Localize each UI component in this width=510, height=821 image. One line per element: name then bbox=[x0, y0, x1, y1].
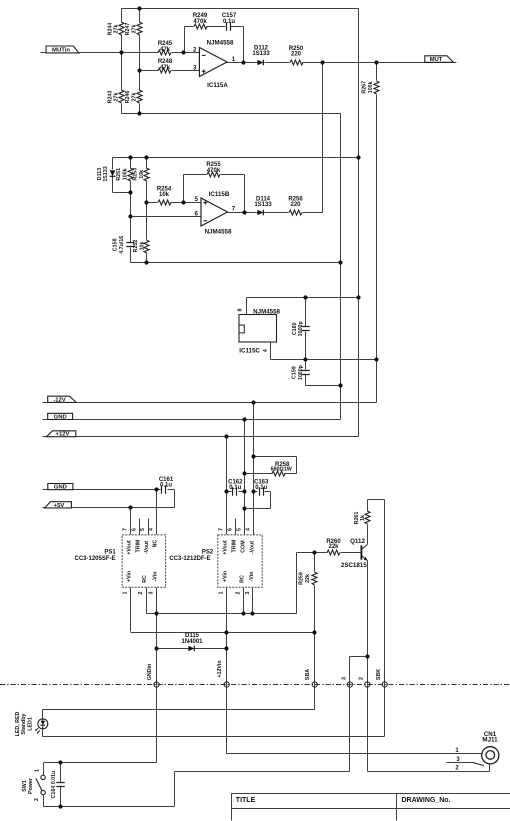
svg-text:47k: 47k bbox=[160, 47, 171, 53]
svg-text:LED, RED: LED, RED bbox=[15, 711, 21, 736]
svg-text:1: 1 bbox=[232, 56, 236, 63]
svg-text:6: 6 bbox=[195, 211, 199, 218]
svg-text:C164 0.01u: C164 0.01u bbox=[51, 771, 57, 799]
svg-text:2: 2 bbox=[359, 677, 365, 680]
svg-text:2: 2 bbox=[193, 46, 197, 53]
svg-text:LED1: LED1 bbox=[27, 717, 33, 731]
svg-text:7: 7 bbox=[232, 206, 236, 213]
svg-text:SBK: SBK bbox=[376, 669, 382, 680]
svg-text:470k: 470k bbox=[207, 168, 221, 174]
svg-text:10k: 10k bbox=[140, 242, 146, 251]
svg-text:MUTin: MUTin bbox=[52, 48, 70, 54]
svg-text:GNDin: GNDin bbox=[147, 664, 153, 680]
svg-text:1N4001: 1N4001 bbox=[181, 639, 203, 645]
svg-text:IC115B: IC115B bbox=[209, 191, 230, 198]
svg-text:100k: 100k bbox=[368, 81, 374, 93]
svg-text:220: 220 bbox=[291, 52, 302, 58]
svg-text:NJM4558: NJM4558 bbox=[205, 229, 232, 236]
svg-text:C160: C160 bbox=[292, 322, 298, 335]
svg-text:MUT: MUT bbox=[430, 57, 443, 63]
svg-text:0.1u: 0.1u bbox=[255, 485, 267, 491]
svg-text:2: 2 bbox=[236, 591, 242, 594]
svg-text:1: 1 bbox=[123, 591, 129, 594]
svg-text:1: 1 bbox=[35, 769, 41, 772]
svg-text:2: 2 bbox=[34, 798, 40, 801]
svg-text:27k: 27k bbox=[132, 93, 138, 102]
svg-text:CC3-1205SF-E: CC3-1205SF-E bbox=[74, 556, 115, 562]
svg-text:SBA: SBA bbox=[305, 669, 311, 680]
svg-text:4.7u/16: 4.7u/16 bbox=[119, 236, 125, 254]
svg-text:1k: 1k bbox=[360, 515, 366, 521]
svg-text:R251: R251 bbox=[116, 168, 122, 181]
svg-text:SW1: SW1 bbox=[22, 780, 28, 792]
svg-text:0.1u: 0.1u bbox=[223, 19, 235, 25]
svg-text:7: 7 bbox=[219, 528, 225, 531]
svg-text:NJM4558: NJM4558 bbox=[207, 39, 234, 46]
svg-text:1S133: 1S133 bbox=[254, 202, 272, 208]
svg-text:MJ11: MJ11 bbox=[482, 737, 498, 744]
svg-text:R247: R247 bbox=[125, 23, 131, 36]
svg-text:+12V: +12V bbox=[56, 432, 70, 438]
svg-text:CC3-1212DF-E: CC3-1212DF-E bbox=[169, 556, 210, 562]
svg-text:27k: 27k bbox=[132, 25, 138, 34]
svg-text:-Vin: -Vin bbox=[249, 572, 255, 582]
svg-text:+Vout: +Vout bbox=[223, 540, 229, 555]
svg-text:TRIM: TRIM bbox=[232, 539, 238, 553]
svg-text:2SC1815: 2SC1815 bbox=[341, 562, 367, 569]
svg-text:8: 8 bbox=[238, 308, 244, 311]
svg-text:IC115C: IC115C bbox=[239, 347, 260, 354]
svg-text:R261: R261 bbox=[354, 512, 360, 525]
svg-text:10k: 10k bbox=[159, 192, 170, 198]
svg-text:RC: RC bbox=[240, 575, 246, 583]
svg-text:22k: 22k bbox=[305, 574, 311, 583]
svg-text:1S133: 1S133 bbox=[103, 166, 109, 181]
svg-text:+12Vin: +12Vin bbox=[217, 660, 223, 677]
svg-text:5: 5 bbox=[236, 528, 242, 531]
svg-text:-12V: -12V bbox=[53, 397, 66, 403]
svg-text:R246: R246 bbox=[125, 91, 131, 104]
svg-text:+Vout: +Vout bbox=[127, 540, 133, 555]
svg-text:PS1: PS1 bbox=[104, 549, 116, 555]
svg-text:3: 3 bbox=[193, 64, 197, 71]
svg-text:Power: Power bbox=[28, 778, 34, 794]
svg-text:C159: C159 bbox=[291, 366, 297, 379]
svg-text:220: 220 bbox=[290, 202, 301, 208]
svg-text:GND: GND bbox=[54, 414, 67, 420]
svg-text:R267: R267 bbox=[361, 81, 367, 94]
svg-text:1000p: 1000p bbox=[298, 364, 304, 380]
svg-text:Standby: Standby bbox=[21, 714, 27, 735]
svg-text:100k: 100k bbox=[123, 168, 129, 180]
svg-text:6: 6 bbox=[131, 528, 137, 531]
svg-text:1: 1 bbox=[219, 591, 225, 594]
svg-text:COM: COM bbox=[240, 540, 246, 553]
svg-text:1000p: 1000p bbox=[298, 321, 304, 337]
svg-text:3: 3 bbox=[149, 591, 155, 594]
svg-text:6: 6 bbox=[228, 528, 234, 531]
svg-text:D115: D115 bbox=[185, 633, 200, 639]
svg-text:7: 7 bbox=[123, 528, 129, 531]
svg-text:R244: R244 bbox=[107, 23, 113, 36]
svg-text:C158: C158 bbox=[113, 238, 119, 251]
svg-text:NC: NC bbox=[153, 540, 159, 548]
svg-text:TITLE: TITLE bbox=[236, 797, 256, 804]
svg-text:10k: 10k bbox=[139, 170, 145, 179]
svg-text:470k: 470k bbox=[193, 19, 207, 25]
svg-text:Q112: Q112 bbox=[350, 538, 365, 545]
svg-text:R253: R253 bbox=[133, 168, 139, 181]
svg-text:0.1u: 0.1u bbox=[160, 483, 172, 489]
svg-text:4: 4 bbox=[149, 528, 155, 531]
svg-text:3: 3 bbox=[342, 677, 348, 680]
svg-text:4: 4 bbox=[263, 349, 269, 352]
svg-text:DRAWING_No.: DRAWING_No. bbox=[402, 797, 451, 804]
svg-text:27k: 27k bbox=[114, 25, 120, 34]
svg-text:R252: R252 bbox=[133, 240, 139, 253]
svg-text:5: 5 bbox=[195, 196, 199, 203]
svg-text:PS2: PS2 bbox=[202, 549, 214, 555]
svg-text:R259: R259 bbox=[298, 572, 304, 585]
svg-text:-Vin: -Vin bbox=[153, 572, 159, 582]
svg-text:GND: GND bbox=[54, 485, 67, 491]
svg-text:IC115A: IC115A bbox=[207, 82, 228, 89]
svg-text:5: 5 bbox=[140, 528, 146, 531]
svg-text:2: 2 bbox=[138, 591, 144, 594]
svg-text:RC: RC bbox=[142, 575, 148, 583]
svg-text:NJM4558: NJM4558 bbox=[253, 308, 280, 315]
svg-text:D113: D113 bbox=[97, 168, 103, 180]
svg-text:R243: R243 bbox=[107, 91, 113, 104]
svg-text:-Vout: -Vout bbox=[144, 541, 150, 554]
svg-text:27k: 27k bbox=[114, 93, 120, 102]
svg-text:-Vout: -Vout bbox=[250, 541, 256, 554]
svg-text:+5V: +5V bbox=[54, 503, 65, 509]
svg-text:0.1u: 0.1u bbox=[229, 485, 241, 491]
svg-text:TRIM: TRIM bbox=[135, 539, 141, 553]
svg-text:47k: 47k bbox=[160, 65, 171, 71]
svg-text:22k: 22k bbox=[328, 544, 339, 550]
svg-text:680Ω1W: 680Ω1W bbox=[271, 467, 292, 473]
svg-text:+Vin: +Vin bbox=[223, 571, 229, 582]
svg-text:4: 4 bbox=[246, 528, 252, 531]
svg-text:+Vin: +Vin bbox=[127, 571, 133, 582]
svg-text:3: 3 bbox=[245, 591, 251, 594]
svg-text:1S133: 1S133 bbox=[252, 51, 270, 57]
